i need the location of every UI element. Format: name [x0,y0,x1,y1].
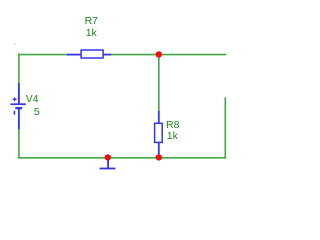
junction node R8 bottom [156,154,162,160]
resistor R8 [155,111,163,156]
battery plus mark [13,97,17,101]
wire left vertical lower [18,129,20,158]
svg-text:V4: V4 [26,93,39,105]
wire top right horizontal [111,54,227,56]
grid dot [14,43,16,44]
junction node ground [105,154,111,160]
wire left vertical upper [18,54,20,84]
resistor R7 [67,50,111,58]
ground [100,159,116,169]
svg-text:1k: 1k [167,130,179,142]
wire top left horizontal [18,54,68,56]
wire R8 branch vertical [158,55,160,112]
wire right vertical [224,97,226,157]
battery minus mark [13,111,15,115]
svg-text:1k: 1k [86,27,98,39]
junction node top [156,51,162,57]
svg-text:R7: R7 [85,15,99,27]
wire bottom horizontal [18,157,226,159]
battery V4 [10,83,26,129]
svg-text:5: 5 [34,106,40,118]
